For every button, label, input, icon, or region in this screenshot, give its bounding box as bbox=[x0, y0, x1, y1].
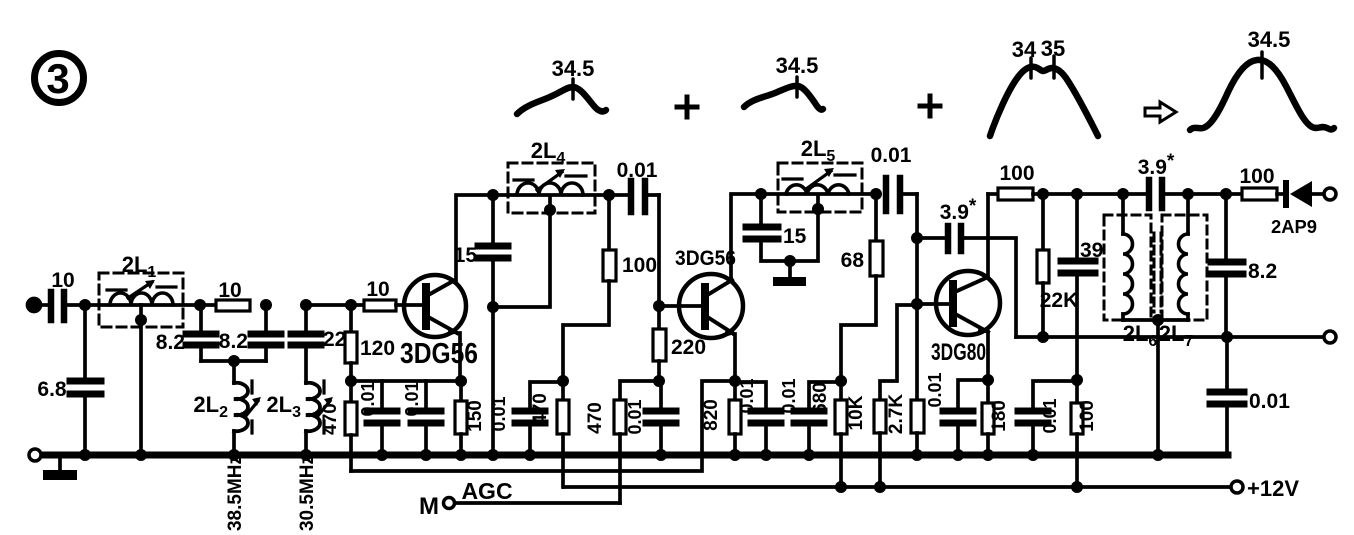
svg-text:0.01: 0.01 bbox=[925, 372, 945, 407]
node O (tank ground) bbox=[784, 255, 796, 267]
svg-text:470: 470 bbox=[530, 393, 551, 425]
inductor 2L4 (tuned, dashed box) bbox=[493, 138, 628, 213]
resistor 100 (diode series) bbox=[1239, 165, 1277, 200]
capacitor 8.2 (detector) bbox=[1211, 194, 1277, 337]
inductor 2L3 (variable trap coil) bbox=[266, 381, 333, 455]
capacitor 0.01 (Q1 base bypass) bbox=[358, 381, 397, 455]
transformer core bbox=[1154, 233, 1161, 312]
svg-text:8.2: 8.2 bbox=[1248, 260, 1277, 283]
svg-text:100: 100 bbox=[1077, 400, 1098, 432]
resistor 100 (Q3 collector) bbox=[988, 162, 1146, 200]
svg-text:39: 39 bbox=[1080, 239, 1103, 262]
wire (Q3 collector up) bbox=[986, 194, 990, 277]
svg-text:470: 470 bbox=[320, 403, 341, 435]
svg-text:0.01: 0.01 bbox=[489, 396, 509, 431]
resistor 680 (stage2 feed from +12V) bbox=[810, 381, 847, 487]
resistor 100 (stage1 feed) bbox=[563, 195, 657, 381]
wire (transformer return) bbox=[1123, 318, 1188, 322]
node I (tank ground tie) bbox=[487, 301, 499, 313]
node D bbox=[300, 299, 312, 311]
svg-text:100: 100 bbox=[999, 162, 1034, 185]
svg-text:470: 470 bbox=[585, 402, 606, 434]
junction on ground bus x=141 bbox=[135, 449, 147, 461]
svg-text:180: 180 bbox=[989, 400, 1010, 432]
junction on ground bus x=493 bbox=[487, 449, 499, 461]
svg-text:22: 22 bbox=[323, 328, 346, 351]
figure number 3 badge bbox=[35, 54, 84, 103]
svg-text:150: 150 bbox=[465, 400, 486, 432]
node F (Q1 bias tap) bbox=[345, 375, 357, 387]
svg-text:120: 120 bbox=[360, 337, 395, 360]
node A2 (2L7 top) bbox=[1182, 188, 1194, 200]
resistor 2.7K (Q3 bias lower) bbox=[886, 304, 924, 455]
node (2L5 tap) bbox=[812, 203, 824, 215]
wire (trap junction) bbox=[201, 359, 266, 363]
transformer 2L7 (dashed box) bbox=[1159, 194, 1207, 350]
capacitor 15 (2L4 tank) bbox=[454, 195, 508, 307]
svg-text:M: M bbox=[419, 493, 439, 520]
node B2 (8.2 tap) bbox=[1220, 188, 1232, 200]
node V (22K tap) bbox=[1037, 188, 1049, 200]
wire (to Q2 base) bbox=[659, 195, 702, 306]
capacitor 0.01 (interstage coupling 1) bbox=[617, 159, 659, 212]
capacitor 3.9* (top coupling) bbox=[1138, 151, 1175, 208]
svg-text:30.5MHz: 30.5MHz bbox=[297, 455, 318, 531]
resistor 470 (stage1 feed from +12V) bbox=[530, 381, 569, 487]
node A (input node) bbox=[79, 299, 91, 311]
node R (Q2 emitter) bbox=[729, 375, 741, 387]
capacitor 0.01 (output) bbox=[1210, 337, 1290, 452]
node Q (stage2 supply node) bbox=[835, 375, 847, 387]
svg-text:34: 34 bbox=[1012, 37, 1037, 62]
svg-text:10K: 10K bbox=[846, 395, 867, 430]
resistor 820 (Q2 emitter) bbox=[701, 381, 741, 455]
ground symbol bbox=[43, 455, 77, 480]
junction on ground bus x=461 bbox=[455, 449, 467, 461]
capacitor 15 (2L5 tank) bbox=[746, 194, 807, 261]
resistor 180 (Q3 emitter) bbox=[982, 380, 1010, 455]
svg-text:15: 15 bbox=[783, 225, 807, 248]
capacitor 0.01 (AGC bypass) bbox=[625, 381, 676, 455]
capacitor 39 bbox=[1061, 194, 1103, 380]
node D2 bbox=[1221, 331, 1233, 343]
node (2L1 tap) bbox=[135, 314, 147, 326]
svg-text:3DG80: 3DG80 bbox=[931, 339, 986, 366]
svg-text:0.01: 0.01 bbox=[625, 399, 645, 434]
capacitor 10 (input series) bbox=[51, 269, 75, 320]
wire (transformer return to bus) bbox=[1156, 320, 1160, 455]
svg-text:34.5: 34.5 bbox=[776, 53, 819, 78]
resistor 120 (Q1 bias) bbox=[345, 305, 395, 381]
capacitor 0.01 (Q1 emitter bypass 1) bbox=[402, 381, 441, 455]
wire (to Q3 base) bbox=[917, 194, 950, 304]
junction on +12V rail x=1077 bbox=[1071, 481, 1083, 493]
svg-text:0.01: 0.01 bbox=[402, 381, 422, 416]
inductor 2L2 (variable trap coil) bbox=[193, 361, 261, 455]
svg-text:100: 100 bbox=[622, 254, 657, 277]
wire (tank to bus) bbox=[491, 307, 495, 455]
svg-text:220: 220 bbox=[671, 336, 706, 359]
terminal (video output) bbox=[1324, 331, 1336, 343]
node X (detector supply node) bbox=[1071, 374, 1083, 386]
svg-text:680: 680 bbox=[810, 382, 831, 414]
junction on ground bus x=530 bbox=[524, 449, 536, 461]
junction on ground bus x=809 bbox=[803, 449, 815, 461]
wire (Q3 emitter down) bbox=[986, 332, 990, 380]
wire (2L5 tap to ground) bbox=[790, 196, 818, 261]
resistor 470 (AGC series) bbox=[585, 381, 659, 503]
wire bbox=[67, 303, 216, 307]
svg-text:6.8: 6.8 bbox=[37, 378, 67, 401]
node B (trap input) bbox=[194, 299, 206, 311]
svg-text:15: 15 bbox=[454, 244, 478, 267]
svg-text:AGC: AGC bbox=[461, 478, 512, 504]
resistor 220 (Q2 base) bbox=[653, 306, 706, 381]
junction on ground bus x=85 bbox=[79, 449, 91, 461]
wire (Q1 collector up) bbox=[456, 195, 493, 281]
svg-text:34.5: 34.5 bbox=[552, 56, 595, 81]
svg-text:68: 68 bbox=[841, 249, 865, 272]
node K (stage1 supply node) bbox=[557, 375, 569, 387]
transistor Q1 3DG56 bbox=[396, 275, 478, 370]
node Y (2L6 top) bbox=[1117, 188, 1129, 200]
junction on ground bus x=735 bbox=[729, 449, 741, 461]
svg-text:3DG56: 3DG56 bbox=[675, 247, 736, 270]
node C2 bbox=[1037, 331, 1049, 343]
node T (Q3 base) bbox=[911, 298, 923, 310]
junction on ground bus x=1033 bbox=[1027, 449, 1039, 461]
capacitor 0.01 (interstage coupling 2) bbox=[871, 144, 917, 211]
svg-text:2.7K: 2.7K bbox=[886, 394, 907, 434]
svg-text:10: 10 bbox=[218, 279, 241, 302]
junction on ground bus x=958 bbox=[952, 449, 964, 461]
svg-text:0.01: 0.01 bbox=[358, 381, 378, 416]
svg-text:8.2: 8.2 bbox=[219, 330, 248, 353]
node H (Q1 collector node) bbox=[487, 189, 499, 201]
junction on +12V rail x=880 bbox=[874, 481, 886, 493]
input terminal bbox=[28, 299, 41, 312]
svg-text:22K: 22K bbox=[1040, 289, 1079, 312]
svg-text:0.01: 0.01 bbox=[1040, 398, 1060, 433]
wire (Q2 collector up) bbox=[731, 194, 761, 280]
node (trap junction) bbox=[228, 355, 240, 367]
block arrow bbox=[1145, 102, 1176, 122]
svg-text:820: 820 bbox=[701, 399, 722, 431]
video output line bbox=[1016, 335, 1324, 339]
svg-text:35: 35 bbox=[1041, 36, 1065, 61]
plus sign 1 bbox=[677, 97, 697, 117]
svg-text:0.01: 0.01 bbox=[737, 378, 757, 413]
terminal +12V bbox=[1231, 481, 1243, 493]
node Z (transformer return tap) bbox=[1152, 314, 1164, 326]
junction on ground bus x=766 bbox=[760, 449, 772, 461]
capacitor 8.2 (trap left) bbox=[156, 305, 216, 361]
node M1 (AGC node) bbox=[653, 375, 665, 387]
resistor 150 (Q1 emitter) bbox=[455, 381, 486, 455]
node (2L4 tap) bbox=[544, 204, 556, 216]
inductor 2L1 (tuned, dashed box) bbox=[99, 252, 183, 327]
capacitor 0.01 (detector bypass) bbox=[1018, 381, 1077, 455]
response curve 4 (34.5 tall hump) bbox=[1190, 52, 1334, 130]
svg-text:+12V: +12V bbox=[1247, 476, 1299, 501]
svg-text:0.01: 0.01 bbox=[871, 144, 912, 167]
capacitor 8.2 (trap right) bbox=[219, 305, 281, 361]
capacitor 0.01 (stage1 supply bypass) bbox=[489, 382, 563, 455]
resistor 10K (Q3 bias upper, to +12V) bbox=[846, 305, 917, 487]
capacitor 0.01 (Q3 emitter bypass) bbox=[925, 372, 988, 455]
resistor 10 (Q1 base series) bbox=[364, 278, 396, 311]
response curve 1 (34.5 single hump) bbox=[517, 79, 606, 114]
resistor 22K bbox=[1037, 194, 1078, 337]
resistor 10 (trap bridge) bbox=[216, 279, 250, 311]
capacitor 22 (trap 2) bbox=[291, 305, 346, 383]
feedback line (470 bottom to Q2 emitter) bbox=[351, 381, 735, 471]
AGC input wire bbox=[455, 501, 620, 505]
junction on ground bus x=917 bbox=[911, 449, 923, 461]
junction on ground bus x=234 bbox=[228, 449, 240, 461]
junction on ground bus x=306 bbox=[300, 449, 312, 461]
svg-text:10: 10 bbox=[51, 269, 74, 292]
diode 2AP9 bbox=[1271, 180, 1324, 237]
svg-text:2AP9: 2AP9 bbox=[1271, 217, 1317, 237]
junction on ground bus x=661 bbox=[655, 449, 667, 461]
node S (neutralizing tap) bbox=[911, 232, 923, 244]
junction on ground bus x=988 bbox=[982, 449, 994, 461]
capacitor 3.9* (neutralizing) bbox=[917, 196, 1016, 337]
plus sign 2 bbox=[920, 96, 940, 116]
wire 2L1 tap to ground bus bbox=[139, 305, 143, 455]
junction on ground bus x=382 bbox=[376, 449, 388, 461]
wire (Q1 emitter down) bbox=[459, 333, 460, 381]
svg-text:8.2: 8.2 bbox=[156, 331, 185, 354]
ground bus bbox=[35, 452, 1228, 459]
capacitor 0.01 (Q2 emitter bypass) bbox=[735, 378, 781, 455]
svg-text:38.5MHz: 38.5MHz bbox=[225, 455, 246, 531]
node U (Q3 emitter) bbox=[982, 374, 994, 386]
node L (Q2 base) bbox=[653, 300, 665, 312]
terminal (IF output) bbox=[1324, 188, 1336, 200]
junction on ground bus x=1158 bbox=[1152, 449, 1164, 461]
transistor Q2 3DG56 bbox=[675, 247, 743, 338]
response curve 2 (34.5 single hump) bbox=[744, 77, 823, 110]
capacitor 6.8 bbox=[37, 378, 101, 401]
transistor Q3 3DG80 bbox=[931, 271, 1000, 366]
resistor 100 (detector feed from +12V) bbox=[1071, 380, 1098, 487]
wire (Q2 emitter down) bbox=[734, 334, 735, 381]
inductor 2L5 (tuned, dashed box) bbox=[761, 136, 876, 212]
svg-text:3DG56: 3DG56 bbox=[400, 338, 478, 370]
node P (2L5 right) bbox=[870, 188, 882, 200]
svg-text:0.01: 0.01 bbox=[1249, 390, 1290, 413]
node N (2L5 left / 15 cap) bbox=[755, 188, 767, 200]
wire (tank tap tie) bbox=[493, 196, 550, 307]
node E (Q1 divider top) bbox=[345, 299, 357, 311]
wire bbox=[1162, 192, 1242, 196]
svg-text:0.01: 0.01 bbox=[617, 159, 658, 182]
junction on +12V rail x=841 bbox=[835, 481, 847, 493]
resistor 470 (Q1 bias lower, to feedback line) bbox=[320, 381, 357, 471]
response curve 3 (34/35 double hump bandpass) bbox=[990, 56, 1098, 136]
wire bbox=[306, 303, 364, 307]
capacitor 0.01 (stage2 supply bypass) bbox=[779, 378, 841, 455]
wire bbox=[40, 303, 48, 307]
svg-text:10: 10 bbox=[366, 278, 389, 301]
terminal (ground) bbox=[29, 449, 41, 461]
junction on ground bus x=426 bbox=[420, 449, 432, 461]
svg-text:3: 3 bbox=[46, 55, 69, 102]
+12V rail bbox=[564, 485, 1231, 489]
transformer 2L6 (dashed box) bbox=[1104, 194, 1157, 350]
wire bbox=[83, 305, 87, 378]
svg-text:34.5: 34.5 bbox=[1248, 27, 1291, 52]
terminal M (AGC) bbox=[444, 498, 455, 509]
wire (Q1 emitter rail) bbox=[351, 379, 461, 383]
svg-text:100: 100 bbox=[1239, 165, 1274, 188]
ground (2L5 tank) bbox=[773, 261, 806, 286]
node C bbox=[260, 299, 272, 311]
wire bbox=[83, 397, 87, 455]
node G (Q1 emitter) bbox=[455, 375, 467, 387]
node J (2L4 output) bbox=[603, 189, 615, 201]
resistor 68 (stage2 feed) bbox=[841, 194, 883, 381]
node W (39 tap) bbox=[1071, 188, 1083, 200]
